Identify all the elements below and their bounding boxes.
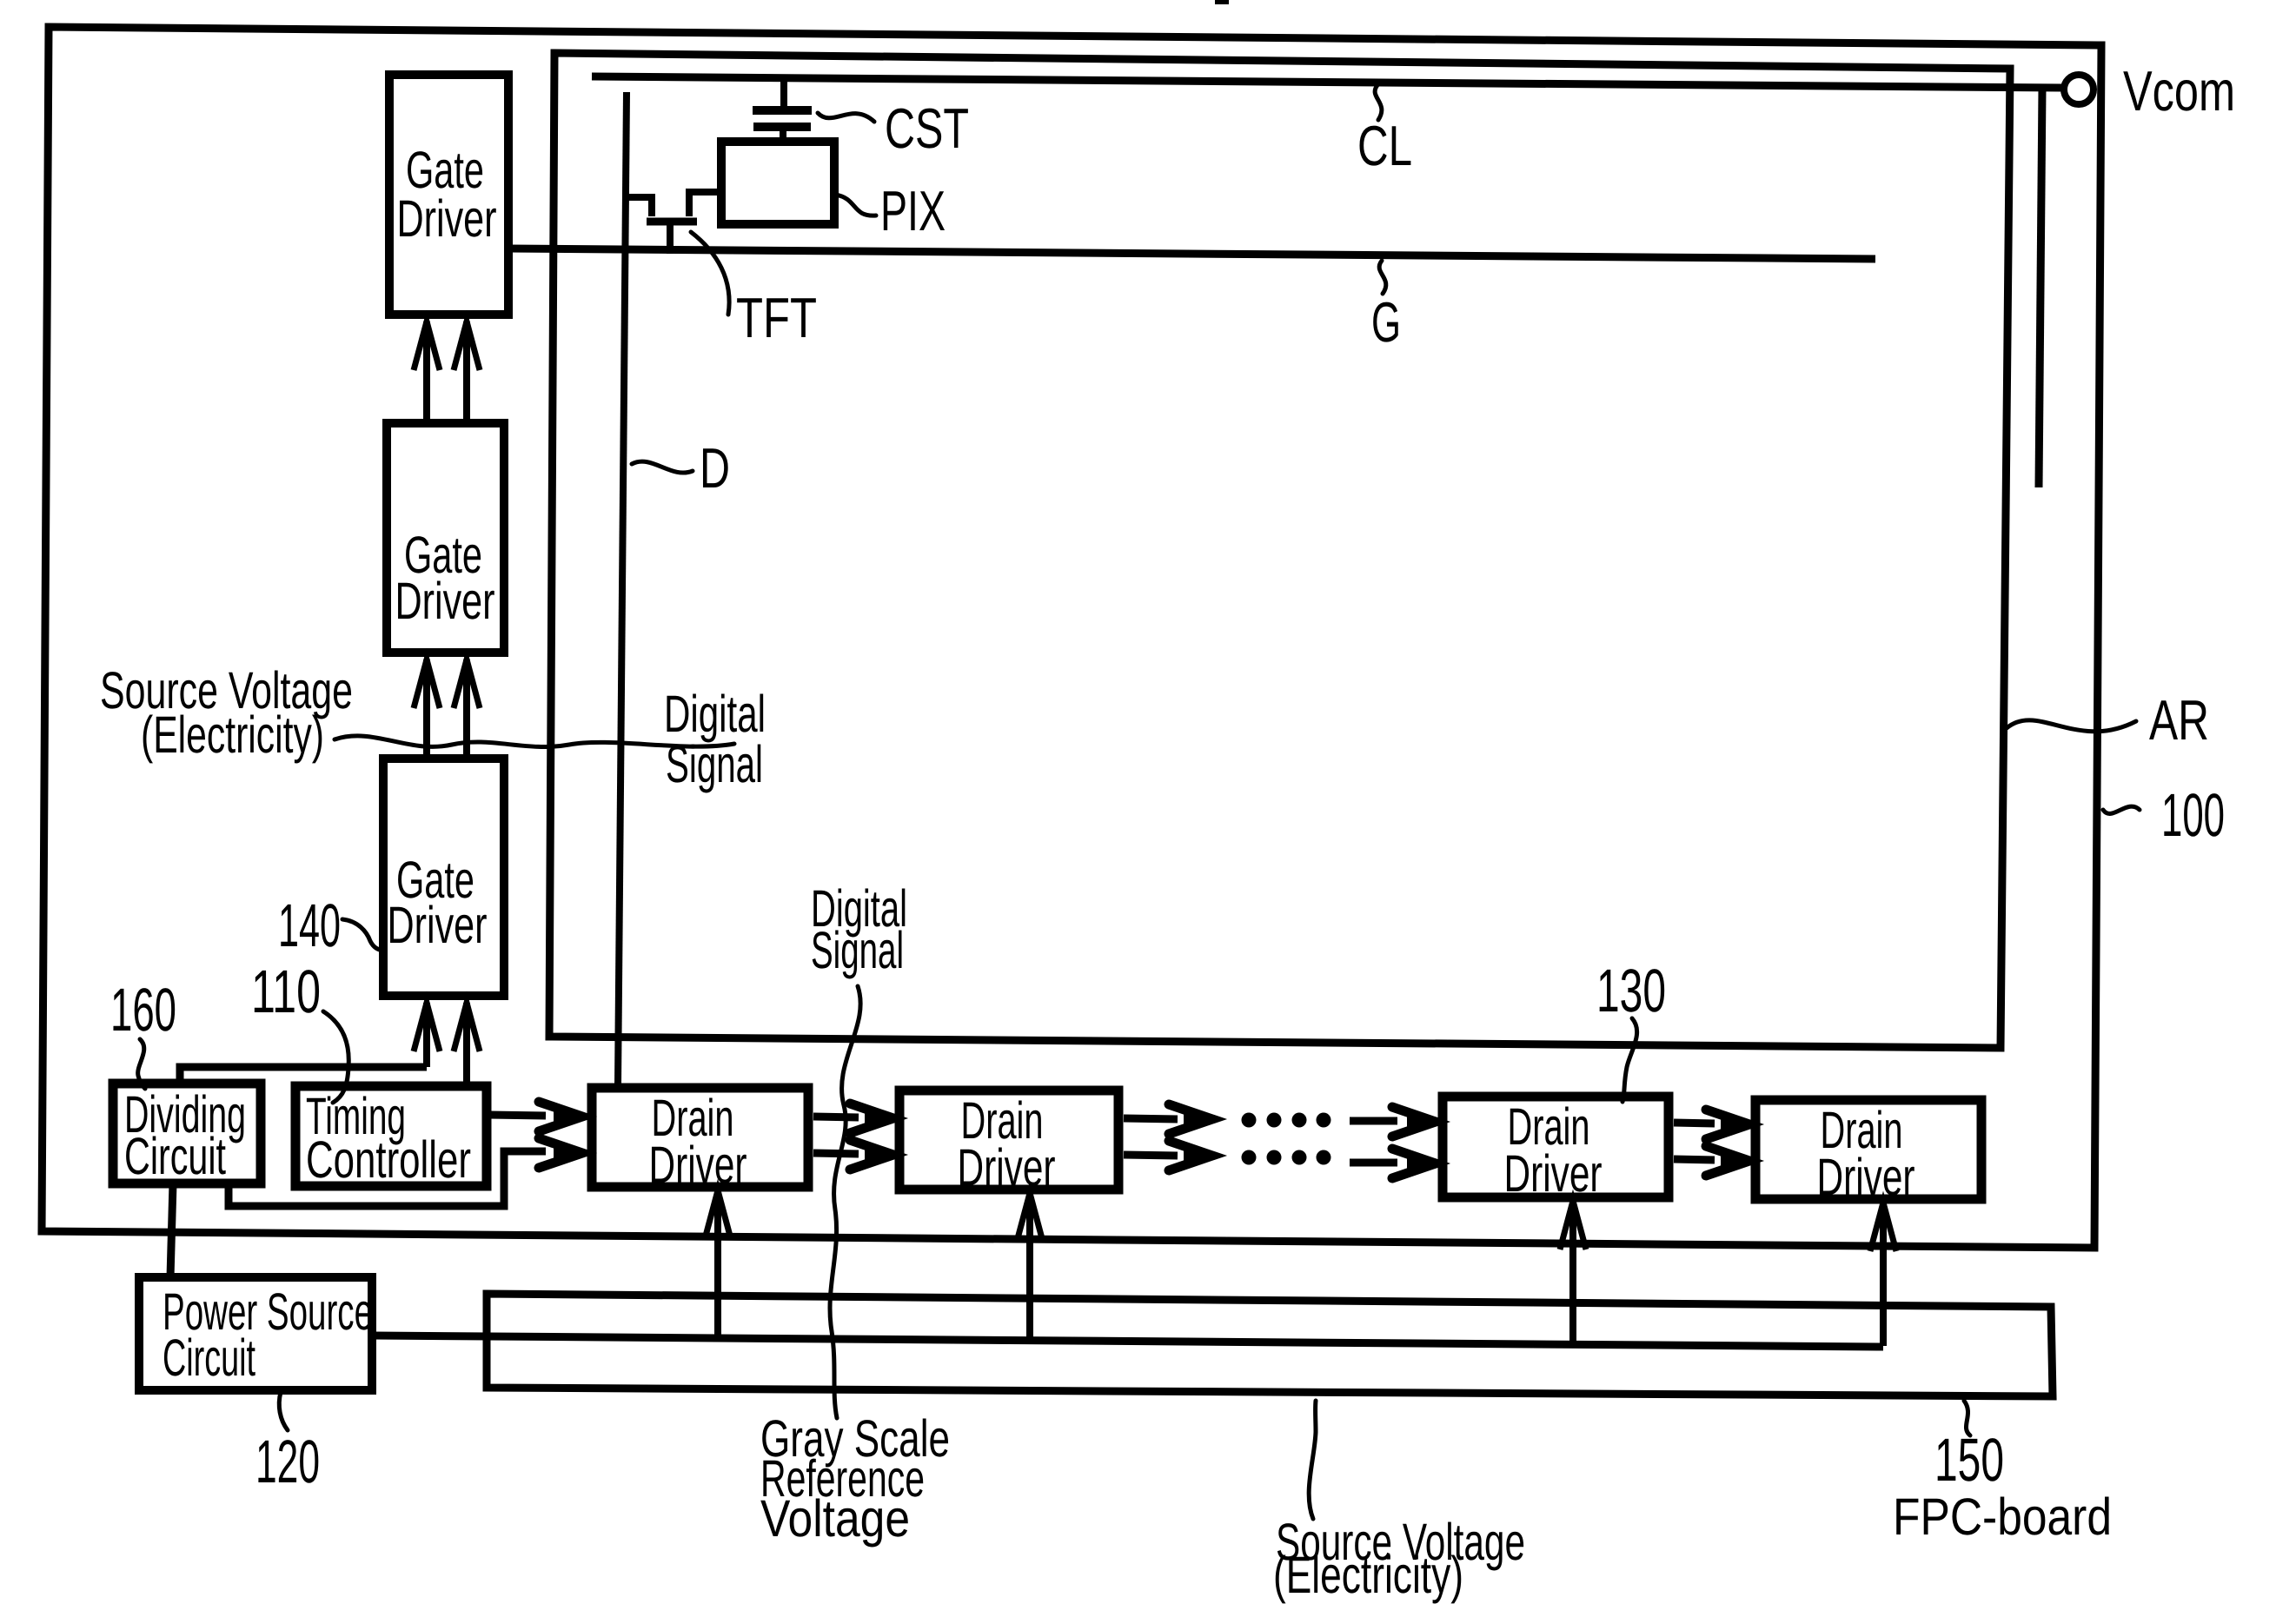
- leader TFT: [691, 232, 729, 315]
- svg-text:Circuit: Circuit: [124, 1127, 226, 1185]
- svg-text:160: 160: [110, 976, 176, 1044]
- wire timing controller to bottom gate driver arrows: [427, 1003, 467, 1086]
- svg-text:Signal: Signal: [666, 735, 763, 793]
- leader source voltage (left, wavy): [335, 736, 734, 747]
- timing controller box 110: [295, 1086, 487, 1186]
- panel outline 100 (outer rectangle): [42, 27, 2101, 1248]
- drain driver box 1: [592, 1088, 808, 1187]
- svg-text:Driver: Driver: [1504, 1144, 1603, 1203]
- leader 130: [1622, 1018, 1637, 1102]
- leader 110: [323, 1011, 348, 1103]
- svg-text:G: G: [1371, 290, 1401, 354]
- wire riser to drain driver 1: [714, 1190, 721, 1336]
- svg-text:TFT: TFT: [736, 286, 817, 349]
- leader 160: [138, 1039, 145, 1089]
- leader digital signal / gray scale reference voltage: [830, 986, 860, 1418]
- wire timing controller bypass bus to drain driver 1 (lower): [229, 1151, 546, 1206]
- wire gate-driver cascade arrows (middle to top): [427, 321, 467, 423]
- leader 140: [342, 919, 383, 951]
- svg-text:150: 150: [1934, 1426, 2004, 1494]
- svg-text:Digital: Digital: [664, 685, 766, 743]
- wire dividing circuit to power source circuit: [170, 1183, 173, 1277]
- leader source voltage (bottom): [1309, 1401, 1316, 1519]
- leader AR: [2007, 720, 2136, 732]
- svg-text:130: 130: [1596, 957, 1666, 1024]
- gate driver box 140 (top): [389, 75, 508, 315]
- svg-text:(Electricity): (Electricity): [1273, 1546, 1463, 1604]
- svg-text:CST: CST: [885, 96, 969, 160]
- dividing circuit box 160: [113, 1084, 261, 1183]
- svg-text:Voltage: Voltage: [760, 1489, 910, 1548]
- leader curves: [138, 85, 2140, 1519]
- wire drain driver 2 output (lower): [1124, 1155, 1178, 1156]
- svg-text:Driver: Driver: [395, 572, 495, 630]
- wire dividing circuit to gate-driver arrow: [180, 1067, 427, 1084]
- wire riser to drain driver 2: [1026, 1193, 1033, 1339]
- wire timing controller to drain driver 1 (upper): [488, 1115, 546, 1116]
- svg-text:Circuit: Circuit: [163, 1329, 255, 1387]
- svg-text:CL: CL: [1357, 114, 1412, 177]
- display area AR (inner rectangle): [549, 53, 2010, 1048]
- wire drain driver 1 to 2 (lower): [813, 1153, 859, 1154]
- wire riser to drain driver 4: [1880, 1203, 1887, 1346]
- wire drain driver 3 to 4 (lower): [1674, 1159, 1715, 1160]
- wire G (gate line): [508, 249, 1875, 259]
- svg-text:AR: AR: [2149, 688, 2209, 752]
- svg-text:Driver: Driver: [388, 896, 488, 954]
- svg-text:Driver: Driver: [649, 1136, 747, 1194]
- capacitor CST: [753, 78, 812, 143]
- wire riser to drain driver 3: [1569, 1201, 1576, 1343]
- leader 100: [2103, 806, 2140, 813]
- transistor TFT: [622, 192, 721, 254]
- svg-text:Vcom: Vcom: [2123, 59, 2235, 123]
- wire CL (common line): [592, 76, 2061, 88]
- leader 150: [1964, 1401, 1970, 1435]
- svg-text:D: D: [700, 436, 730, 500]
- gate driver box (middle): [387, 423, 504, 653]
- svg-text:(Electricity): (Electricity): [141, 706, 324, 764]
- wire power source circuit output bus: [372, 1336, 1883, 1347]
- svg-text:PIX: PIX: [880, 179, 946, 242]
- drain driver box 4: [1755, 1100, 1981, 1199]
- wire Vcom feed: [2039, 88, 2042, 487]
- wire drain driver 3 to 4 (upper): [1674, 1123, 1715, 1123]
- drain driver box 3 (130): [1443, 1097, 1669, 1197]
- terminal Vcom: [2064, 75, 2094, 104]
- ellipsis dots (cascade continuation): [1242, 1113, 1331, 1165]
- leader D: [632, 461, 693, 473]
- svg-text:110: 110: [251, 958, 321, 1025]
- svg-text:100: 100: [2161, 781, 2225, 849]
- leader PIX: [835, 195, 876, 215]
- svg-text:Controller: Controller: [306, 1130, 471, 1189]
- drain driver box 2: [899, 1090, 1118, 1190]
- FPC-board trace 150: [487, 1294, 2053, 1396]
- stray scan mark: [1215, 0, 1229, 4]
- gate driver box (bottom): [383, 759, 504, 996]
- wire into drain driver 3 (lower): [1350, 1159, 1397, 1167]
- leader CL: [1375, 85, 1382, 120]
- svg-text:Driver: Driver: [958, 1138, 1056, 1196]
- wire D (data line): [618, 92, 627, 1086]
- wire drain driver 2 output (upper): [1124, 1118, 1178, 1119]
- svg-text:Driver: Driver: [397, 189, 497, 248]
- leader G: [1379, 261, 1386, 294]
- svg-text:FPC-board: FPC-board: [1893, 1488, 2112, 1546]
- wire drain driver 1 to 2 (upper): [813, 1117, 859, 1117]
- power source circuit box 120: [139, 1277, 372, 1390]
- svg-text:Signal: Signal: [811, 921, 904, 979]
- svg-text:140: 140: [278, 891, 341, 959]
- svg-text:120: 120: [255, 1428, 320, 1495]
- wire into drain driver 3 (upper): [1350, 1117, 1397, 1125]
- pixel PIX: [721, 142, 834, 224]
- svg-text:Driver: Driver: [1817, 1148, 1915, 1206]
- wire gate-driver cascade arrows (bottom to middle): [427, 659, 467, 759]
- leader 120: [279, 1392, 288, 1430]
- leader CST: [818, 113, 874, 122]
